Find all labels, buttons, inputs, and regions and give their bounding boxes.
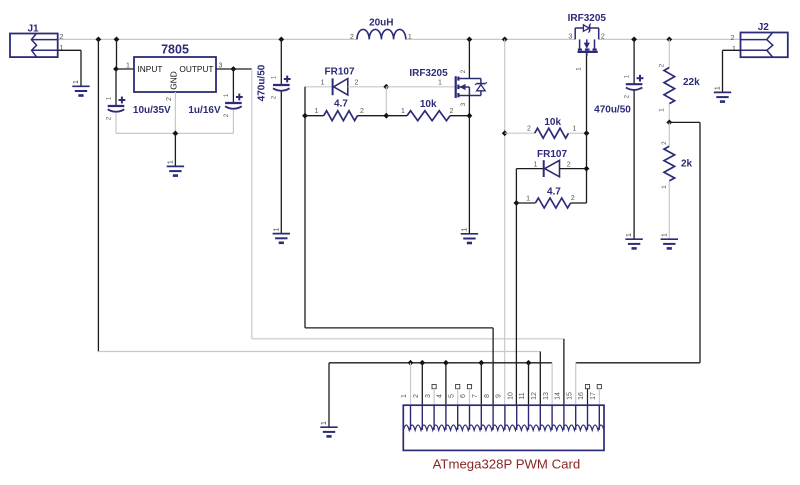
pin 3 unconnected terminator <box>432 385 436 389</box>
node R1 right junction <box>383 113 389 119</box>
node pin2 junction <box>419 360 425 366</box>
wire C1 top lead <box>115 69 117 106</box>
svg-text:6: 6 <box>460 394 467 398</box>
wire pin4 stub <box>445 363 447 405</box>
pin 17 unconnected terminator <box>597 385 601 389</box>
wire R5 top lead <box>668 39 670 67</box>
svg-text:4.7: 4.7 <box>334 99 348 110</box>
ground C3 <box>273 233 290 235</box>
svg-text:1: 1 <box>526 196 530 203</box>
wire C4 top lead <box>633 39 635 84</box>
pin 6 unconnected terminator <box>467 385 471 389</box>
svg-text:1: 1 <box>732 44 736 53</box>
node switch rail junction <box>502 37 508 43</box>
svg-text:2: 2 <box>460 69 467 73</box>
wire feedback to corner <box>669 121 700 123</box>
svg-text:1: 1 <box>126 62 130 69</box>
wire R4 right lead <box>571 202 587 204</box>
svg-text:2: 2 <box>571 195 575 202</box>
svg-text:10: 10 <box>507 392 514 400</box>
node Q1 drain rail junction <box>467 37 473 43</box>
svg-text:1: 1 <box>572 125 576 132</box>
svg-text:470u/50: 470u/50 <box>257 64 268 101</box>
svg-text:3: 3 <box>460 102 467 106</box>
svg-text:14: 14 <box>555 392 562 400</box>
node 7805 output junction <box>231 66 237 72</box>
svg-text:IRF3205: IRF3205 <box>568 13 607 24</box>
svg-text:2: 2 <box>730 33 734 42</box>
svg-text:J1: J1 <box>27 24 39 35</box>
svg-text:1: 1 <box>401 394 408 398</box>
wire C3 top lead <box>280 39 282 85</box>
ground J2 <box>714 91 731 93</box>
svg-text:10u/35V: 10u/35V <box>133 105 171 116</box>
svg-text:7: 7 <box>472 394 479 398</box>
wire C4 bottom lead <box>633 91 635 240</box>
svg-text:2: 2 <box>413 394 420 398</box>
svg-text:1: 1 <box>661 233 668 237</box>
node R4 left junction <box>514 200 520 206</box>
resistor R2 10k <box>407 111 450 121</box>
capacitor C1 10u/35V <box>108 105 125 107</box>
wire J2 pin1 to ground <box>723 49 741 51</box>
capacitor C3 470u/50 <box>273 84 290 86</box>
wire C2 bottom lead <box>232 110 234 134</box>
ground ATmega <box>320 426 337 428</box>
diode D2 FR107 <box>543 160 545 177</box>
svg-text:16: 16 <box>578 392 585 400</box>
svg-text:1: 1 <box>659 108 666 112</box>
svg-text:1: 1 <box>321 80 325 87</box>
wire R6 bottom lead <box>668 181 670 239</box>
wire pin11 stub <box>528 363 530 405</box>
node D2 right junction <box>584 166 590 172</box>
wire pin8 horizontal <box>305 327 493 329</box>
svg-text:1: 1 <box>401 108 405 115</box>
svg-text:1: 1 <box>315 108 319 115</box>
wire output rail from Q2 to J2 pin2 <box>599 38 741 40</box>
node feedback junction <box>666 120 672 126</box>
svg-text:17: 17 <box>590 392 597 400</box>
node Vin junction B <box>114 37 120 43</box>
wire rail down to 7805 input <box>116 39 118 69</box>
wire R1 left lead <box>305 115 324 117</box>
svg-text:11: 11 <box>519 392 526 399</box>
wire ground stub <box>328 363 330 427</box>
wire cap ground row <box>116 132 233 134</box>
svg-text:FR107: FR107 <box>324 67 354 78</box>
svg-text:1: 1 <box>715 86 722 90</box>
svg-text:IRF3205: IRF3205 <box>409 68 448 79</box>
svg-text:FR107: FR107 <box>537 149 567 160</box>
wire Q1 drain <box>468 39 470 78</box>
regulator U1 7805 <box>134 57 216 92</box>
svg-text:1: 1 <box>73 80 80 84</box>
wire feedback horizontal <box>576 362 700 364</box>
node pin11 junction <box>526 360 532 366</box>
wire gate node column <box>385 87 387 116</box>
svg-text:OUTPUT: OUTPUT <box>179 64 213 74</box>
wire to regulator ground <box>174 133 176 166</box>
wire 5V horizontal to ATmega pin14 <box>252 338 564 340</box>
svg-text:1: 1 <box>167 160 174 164</box>
svg-text:2: 2 <box>527 126 531 133</box>
wire pin7 stub <box>480 363 482 405</box>
wire R5 bottom lead <box>668 104 670 123</box>
connector J1 <box>10 34 58 58</box>
svg-text:J2: J2 <box>758 22 770 33</box>
wire 5V down column x252 <box>251 69 253 339</box>
wire R2 left lead <box>386 115 407 117</box>
svg-text:2: 2 <box>59 32 63 41</box>
wire R1 right lead <box>357 115 386 117</box>
wire drop into pin13 <box>551 363 553 405</box>
pin 5 unconnected terminator <box>456 385 460 389</box>
node R1 left junction <box>302 113 308 119</box>
resistor R4 4.7 <box>535 198 570 208</box>
node C3 rail junction <box>278 37 284 43</box>
wire pin10 column <box>515 203 517 405</box>
svg-text:8: 8 <box>484 394 491 398</box>
wire R3 right lead <box>569 132 587 134</box>
ATmega328P card connector box <box>403 405 604 450</box>
ground regulator <box>167 165 184 167</box>
svg-text:GND: GND <box>169 71 179 89</box>
node R5 rail junction <box>666 37 672 43</box>
node regulator ground junction <box>173 131 179 137</box>
node Vin junction A <box>96 37 102 43</box>
node Q2 gate node junction <box>584 130 590 136</box>
svg-text:ATmega328P PWM Card: ATmega328P PWM Card <box>433 457 581 472</box>
wire output to corner <box>233 68 251 70</box>
svg-text:1: 1 <box>273 227 280 231</box>
wire pin2 stub <box>421 363 423 405</box>
wire Vin horizontal to ATmega pin12 <box>98 351 540 353</box>
node pin4 junction <box>443 360 449 366</box>
inductor L1 20uH <box>357 29 406 39</box>
svg-text:2k: 2k <box>681 159 693 170</box>
wire drop into pin8 <box>492 328 494 405</box>
wire 7805 OUTPUT pin3 <box>216 68 233 70</box>
wire drop into pin14 <box>563 339 565 405</box>
node pin7 junction <box>478 360 484 366</box>
ground R6 <box>661 238 678 240</box>
pin 16 unconnected terminator <box>585 385 589 389</box>
wire D1 row left <box>305 86 333 88</box>
svg-text:470u/50: 470u/50 <box>594 105 631 116</box>
capacitor C2 1u/16V <box>225 102 242 104</box>
svg-text:4.7: 4.7 <box>547 187 561 198</box>
wire feedback column x700 <box>699 122 701 362</box>
connector J2 <box>741 33 788 58</box>
wire column x505 to ATmega pin9 <box>504 39 506 405</box>
svg-text:1: 1 <box>438 80 442 87</box>
wire Q2 gate column <box>586 52 588 203</box>
wire Q1 source down <box>468 96 470 234</box>
node 7805 input junction <box>113 66 119 72</box>
node Q1 gate node top <box>383 84 389 90</box>
wire J1 pin1 to ground <box>58 49 81 51</box>
wire R2 right lead <box>450 115 469 117</box>
svg-text:22k: 22k <box>683 77 700 88</box>
wire D2 right lead <box>560 168 587 170</box>
capacitor C4 470u/50 <box>626 83 643 85</box>
svg-text:20uH: 20uH <box>369 18 393 29</box>
svg-text:2: 2 <box>450 108 454 115</box>
svg-text:1: 1 <box>661 185 668 189</box>
svg-text:2: 2 <box>166 97 173 101</box>
svg-text:1: 1 <box>576 67 583 71</box>
svg-text:1: 1 <box>321 421 328 425</box>
svg-text:7805: 7805 <box>161 43 189 57</box>
node Q1 source junction <box>467 113 473 119</box>
svg-text:4: 4 <box>437 394 444 398</box>
wire R6 top lead <box>668 122 670 146</box>
svg-text:13: 13 <box>543 392 550 400</box>
svg-text:9: 9 <box>496 394 503 398</box>
wire switch-node rail from inductor to Q2 <box>406 38 575 40</box>
wire pin1 stub <box>410 363 412 405</box>
wire ATmega ground horizontal <box>329 362 552 364</box>
svg-text:5: 5 <box>448 394 455 398</box>
svg-text:3: 3 <box>425 394 432 398</box>
svg-text:15: 15 <box>566 392 573 400</box>
node R3 left junction <box>502 130 508 136</box>
svg-text:2: 2 <box>360 108 364 115</box>
svg-text:1: 1 <box>408 34 412 41</box>
ground Q1 source <box>461 233 478 235</box>
svg-text:10k: 10k <box>544 117 561 128</box>
wire D2 left corner <box>516 168 543 170</box>
ground J1 <box>72 85 89 87</box>
node pin1 junction <box>408 360 414 366</box>
svg-text:3: 3 <box>568 33 572 40</box>
resistor R6 2k <box>664 146 675 181</box>
wire gate node to Q1 gate <box>386 86 455 88</box>
svg-text:2: 2 <box>350 34 354 41</box>
svg-text:2: 2 <box>659 63 666 67</box>
resistor R1 4.7 <box>324 111 358 121</box>
svg-text:12: 12 <box>531 392 538 400</box>
svg-text:10k: 10k <box>420 99 437 110</box>
wire 7805 GND pin2 stub <box>174 92 176 133</box>
wire D1 row right to gate node <box>348 86 387 88</box>
wire V+ rail from J1 pin2 to inductor <box>58 38 357 40</box>
wire R3 left lead <box>505 132 535 134</box>
wire drop into pin15 <box>575 363 577 405</box>
node C4 rail junction <box>631 37 637 43</box>
svg-text:2: 2 <box>601 33 605 40</box>
wire to 7805 INPUT pin1 <box>116 68 134 70</box>
svg-text:1: 1 <box>461 228 468 232</box>
svg-text:1: 1 <box>626 233 633 237</box>
wire Vin down column x98 <box>97 39 99 351</box>
svg-text:INPUT: INPUT <box>138 64 163 74</box>
wire pin8 column from D1 <box>304 87 306 328</box>
svg-text:2: 2 <box>661 141 668 145</box>
wire R4 left lead <box>516 202 535 204</box>
resistor R5 22k <box>664 68 675 104</box>
wire C2 top lead <box>232 69 234 103</box>
wire C1 bottom lead <box>115 113 117 134</box>
svg-text:2: 2 <box>567 161 571 168</box>
svg-text:2: 2 <box>355 80 359 87</box>
svg-text:1u/16V: 1u/16V <box>188 105 221 116</box>
wire drop into pin12 <box>539 352 541 406</box>
svg-text:1: 1 <box>533 161 537 168</box>
resistor R3 10k <box>535 128 569 138</box>
wire C3 bottom lead <box>280 92 282 234</box>
diode D1 FR107 <box>332 78 334 95</box>
ground C4 <box>625 238 642 240</box>
